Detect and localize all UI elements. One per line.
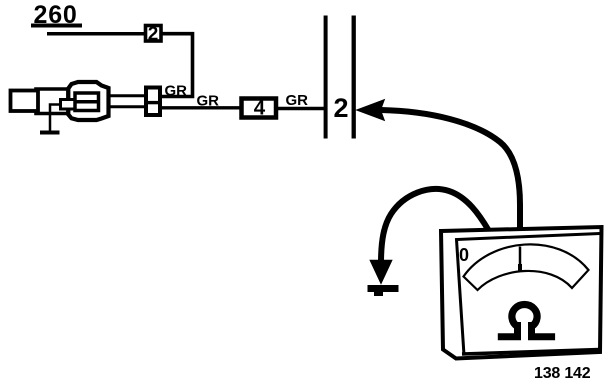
svg-text:0: 0 — [459, 245, 469, 265]
sensor hex body — [68, 82, 108, 120]
ground bar (test point) — [368, 285, 399, 292]
component box 4 — [242, 99, 277, 118]
connector line 2 — [352, 16, 356, 139]
sensor terminal tab — [61, 100, 76, 110]
svg-text:138 142: 138 142 — [534, 365, 591, 382]
arrowhead at connector — [358, 101, 384, 120]
omega left leg and foot — [498, 322, 518, 337]
svg-text:GR: GR — [165, 83, 188, 100]
meter needle — [519, 247, 522, 272]
wire connector to box 4 — [161, 106, 241, 109]
sensor ground bar — [40, 131, 60, 135]
wire sensor to connector upper — [99, 94, 146, 97]
connector line 1 — [324, 16, 328, 139]
ohmmeter bottom inner edge — [462, 350, 599, 355]
wire sensor to connector lower — [99, 105, 146, 108]
wire to box 2 — [47, 32, 146, 36]
sensor probe — [11, 91, 39, 112]
omega right leg and foot — [532, 322, 556, 337]
ground lead from meter (curved) — [381, 189, 489, 263]
probe lead to connector (curved, from meter) — [380, 110, 520, 234]
connector box 2 (top) — [146, 26, 162, 42]
title underline — [31, 24, 82, 28]
ground bar stub — [374, 292, 383, 296]
connector divider — [144, 101, 162, 104]
wire box 4 to connector — [278, 107, 324, 110]
meter scale band — [464, 244, 589, 290]
wire from box 2 down to connector junction — [161, 34, 193, 97]
svg-text:2: 2 — [148, 24, 159, 45]
inline connector block — [146, 88, 160, 116]
meter needle hub — [518, 264, 522, 271]
ohmmeter outer case — [441, 227, 602, 359]
sensor body — [36, 89, 68, 114]
terminal divider — [74, 100, 100, 104]
svg-text:GR: GR — [286, 92, 309, 109]
svg-text:2: 2 — [334, 93, 349, 123]
omega symbol ring — [512, 305, 537, 327]
sensor ground wire — [50, 105, 61, 132]
sensor terminal block — [75, 93, 99, 111]
svg-text:4: 4 — [254, 97, 266, 120]
ohmmeter front face edges — [457, 234, 601, 356]
arrowhead down at ground — [371, 261, 392, 284]
